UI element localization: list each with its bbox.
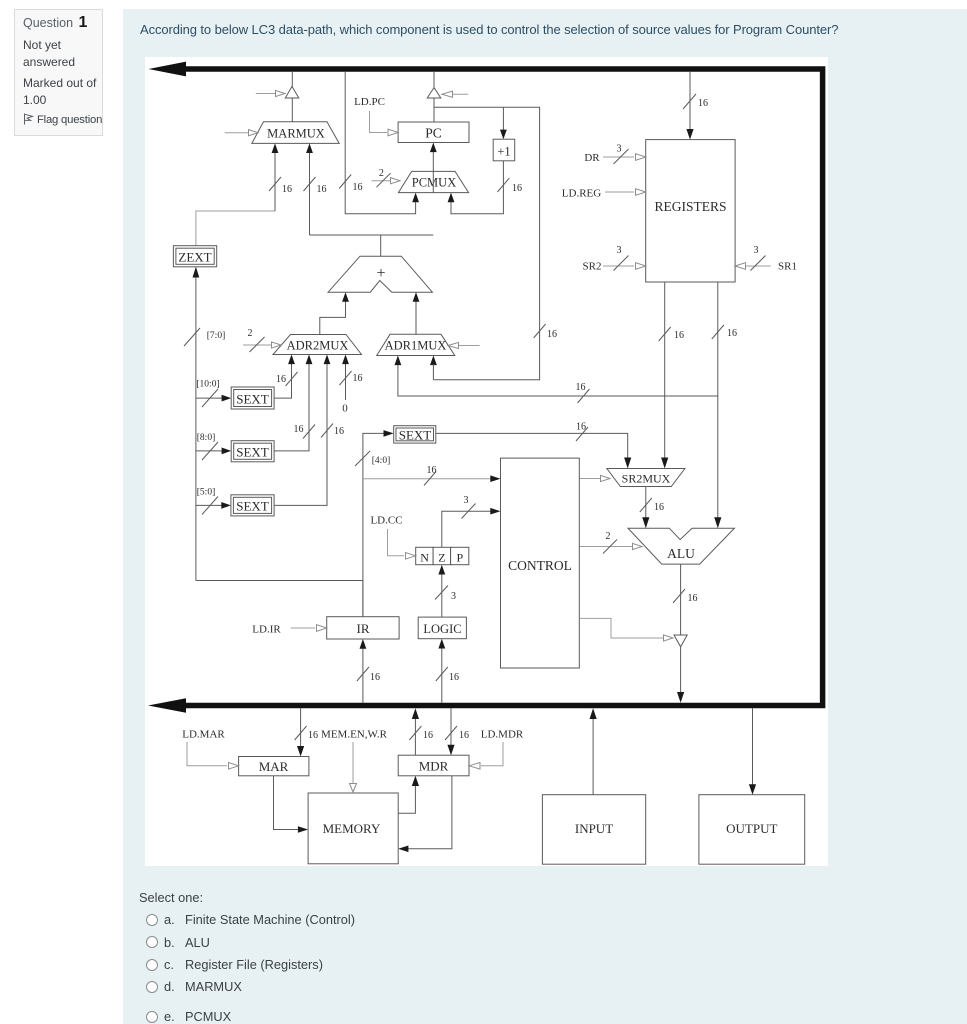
control unit CONTROL <box>501 458 580 668</box>
wire IR output riser (left) <box>195 277 197 581</box>
slash 16 on ALU output <box>673 589 685 603</box>
wire ADR2MUX select stub with slash 2 <box>243 342 281 348</box>
wire INPUT to bus <box>592 719 594 795</box>
slash on SEXT2 input <box>202 442 218 460</box>
wire SEXT4 output to SR2MUX <box>436 433 628 464</box>
svg-text:LD.MDR: LD.MDR <box>481 729 524 741</box>
svg-text:0: 0 <box>342 403 348 415</box>
arrowhead into MAR <box>297 746 304 757</box>
arrowhead into NZP <box>438 565 445 575</box>
wire adder output to MARMUX and PCMUX <box>310 235 434 256</box>
arrowhead ADR2MUX input3 <box>324 355 331 365</box>
bus top-left arrowhead <box>149 62 187 77</box>
wire ADR1MUX right input riser <box>432 364 434 380</box>
slash on SR2 <box>614 256 629 271</box>
register ZEXT (double border) <box>173 246 216 267</box>
wire MDR to bus <box>414 719 416 755</box>
svg-text:16: 16 <box>294 424 304 435</box>
wire LOGIC to NZP <box>441 570 443 617</box>
wire SR1 to ADR1MUX left input <box>398 360 718 397</box>
wire MARMUX right input riser (from adder) <box>309 146 311 235</box>
wire bus to GatePC <box>433 72 435 88</box>
arrowhead into SR2MUX left input <box>624 458 631 469</box>
wire CONTROL to ALUK select <box>579 543 642 549</box>
svg-text:16: 16 <box>423 730 433 741</box>
mux ADR1MUX <box>377 334 455 355</box>
slash 3 on LOGIC output <box>435 586 448 600</box>
slash 16 on bus-LOGIC wire <box>436 667 448 681</box>
svg-text:CONTROL: CONTROL <box>508 558 572 573</box>
svg-text:16: 16 <box>334 426 344 437</box>
wire LD.IR into IR <box>291 625 327 632</box>
slash on SR1 <box>751 256 766 271</box>
slash on ALUK <box>603 540 617 554</box>
wire SEXT3 output to ADR2MUX <box>274 359 327 506</box>
slash 16 on SR2MUX output <box>640 498 652 512</box>
slash 3 on NZP-CONTROL wire <box>462 504 476 519</box>
wire CONTROL to GateALU <box>579 618 673 641</box>
svg-text:LD.CC: LD.CC <box>370 515 402 527</box>
register PC <box>398 122 469 143</box>
arrowhead ADR2MUX input4 <box>342 355 349 365</box>
arrowhead into REGISTERS <box>686 129 693 140</box>
condition code register N <box>416 547 433 564</box>
tri-state buffer GateMARMUX <box>285 86 299 98</box>
slash 16 on SR1 output <box>712 325 724 339</box>
wire IR to CONTROL <box>363 478 491 480</box>
arrowhead into SEXT3 <box>221 502 231 509</box>
arrowhead MDR-MEMORY <box>398 846 408 853</box>
svg-text:[10:0]: [10:0] <box>196 380 219 390</box>
svg-text:2: 2 <box>248 328 253 339</box>
svg-text:SEXT: SEXT <box>236 445 269 460</box>
ALU <box>628 528 734 564</box>
arrowhead into OUTPUT <box>749 784 756 795</box>
wire LD.REG into REGISTERS <box>605 189 646 196</box>
wire ADR1MUX output to adder <box>415 296 417 334</box>
wire GateMARMUX control stub <box>256 90 285 96</box>
svg-text:16: 16 <box>449 672 459 683</box>
svg-text:16: 16 <box>353 182 363 193</box>
wire bus riser to PCMUX left input <box>345 72 415 214</box>
svg-text:LOGIC: LOGIC <box>423 622 461 636</box>
arrowhead PCMUX left input <box>412 193 419 203</box>
mux SR2MUX (inverted trapezoid) <box>607 469 685 487</box>
wire GatePC control stub <box>442 91 468 97</box>
slash [4:0] on IR riser <box>355 451 370 466</box>
wire ALU output to GateALU <box>680 564 682 635</box>
wire LD.MAR into MAR <box>187 742 239 769</box>
svg-text:LD.MAR: LD.MAR <box>182 729 225 741</box>
svg-text:Z: Z <box>438 551 445 565</box>
arrowhead ADR1MUX left input <box>395 356 402 366</box>
svg-text:LD.REG: LD.REG <box>562 188 601 200</box>
svg-text:PCMUX: PCMUX <box>412 176 456 190</box>
slash 16 on SR1-ADR1MUX wire <box>578 389 590 403</box>
mux PCMUX <box>398 171 468 192</box>
wire IR[5:0] branch to SEXT <box>196 504 223 506</box>
slash 16 on bus-REGISTERS wire <box>683 94 696 109</box>
arrowhead ADR1MUX right input <box>430 356 437 366</box>
arrowhead into SR2MUX right input <box>661 458 668 469</box>
svg-text:LD.IR: LD.IR <box>252 624 281 636</box>
svg-text:MAR: MAR <box>259 759 289 774</box>
arrowhead into MDR <box>447 745 454 756</box>
arrowhead into SEXT1 <box>222 395 232 402</box>
wire GateALU to bus <box>680 647 682 693</box>
arrowhead NZP-CONTROL <box>490 508 500 515</box>
svg-text:ALU: ALU <box>667 546 695 561</box>
adder for address generation <box>328 256 432 292</box>
system bus (thick C-shaped loop) <box>170 69 823 706</box>
wire LD.CC to NZP <box>388 529 416 559</box>
input device INPUT <box>542 795 645 865</box>
memory address register MAR <box>239 757 309 776</box>
slash on SEXT1 input <box>202 389 218 407</box>
wire MARMUX left input riser <box>274 146 276 211</box>
wire NZP to CONTROL <box>442 511 491 547</box>
wire IR[10:0] branch to SEXT <box>196 397 223 399</box>
arrowhead ADR2MUX input2 <box>306 355 313 365</box>
arrowhead into PC bottom <box>430 143 437 153</box>
slash on ADR2MUX select <box>250 337 265 352</box>
svg-text:[5:0]: [5:0] <box>197 488 215 498</box>
slash 16 on SEXT4 output <box>576 427 588 441</box>
arrowhead into LOGIC bottom <box>438 639 445 649</box>
memory data register MDR <box>398 755 469 776</box>
svg-text:SR2MUX: SR2MUX <box>622 472 671 486</box>
svg-text:ADR2MUX: ADR2MUX <box>287 339 349 353</box>
slash 16 on MDR-bus wire <box>409 726 421 740</box>
arrowhead into ALU B input <box>714 517 721 528</box>
svg-text:[4:0]: [4:0] <box>372 456 390 466</box>
slash 16 on bus-MAR wire <box>295 726 307 740</box>
wire bus to IR <box>362 645 364 703</box>
wire SR2 output riser <box>664 282 666 464</box>
svg-text:16: 16 <box>576 382 586 393</box>
wire GateMARMUX to MARMUX <box>291 98 293 122</box>
arrowhead into IR bottom <box>360 639 367 649</box>
wire CONTROL to SR2MUX select <box>579 475 610 481</box>
svg-text:MEMORY: MEMORY <box>323 821 381 836</box>
wire SR1 output riser <box>717 282 719 522</box>
slash 16 on SEXT1 output <box>286 372 298 386</box>
wire MARMUX select stub <box>225 130 258 136</box>
arrowhead into SEXT2 <box>222 448 232 455</box>
svg-text:SEXT: SEXT <box>236 392 269 407</box>
arrowhead adder left input <box>342 292 349 302</box>
wire bus to MAR <box>300 708 302 748</box>
wire bus to MDR <box>450 708 452 747</box>
arrowhead ADR2MUX input1 <box>288 355 295 365</box>
arrowhead GateALU onto bus <box>677 692 684 703</box>
svg-text:LD.PC: LD.PC <box>354 96 385 108</box>
wire PCMUX select stub with slash 2 <box>372 178 401 184</box>
output device OUTPUT <box>699 795 805 865</box>
sign-extend SEXT3 (double border) <box>231 495 274 516</box>
wire LD.MDR into MDR <box>469 742 503 769</box>
svg-text:[7:0]: [7:0] <box>207 331 225 341</box>
svg-text:16: 16 <box>512 183 522 194</box>
arrowhead into MARMUX right input <box>306 143 313 153</box>
wire MEMORY to MDR <box>398 781 415 813</box>
svg-text:16: 16 <box>547 329 557 340</box>
svg-text:3: 3 <box>464 495 469 506</box>
slash 16 on MARMUX left input <box>269 177 281 191</box>
svg-text:SR2: SR2 <box>583 261 602 273</box>
svg-text:16: 16 <box>276 374 286 385</box>
svg-text:16: 16 <box>317 184 327 195</box>
svg-text:MARMUX: MARMUX <box>267 127 325 141</box>
wire incrementer output to PCMUX <box>451 161 503 214</box>
svg-text:16: 16 <box>282 184 292 195</box>
svg-text:16: 16 <box>353 373 363 384</box>
svg-text:IR: IR <box>357 621 370 636</box>
svg-text:3: 3 <box>617 144 622 155</box>
wire DR into REGISTERS <box>603 154 646 161</box>
svg-text:DR: DR <box>584 152 600 164</box>
slash 16 on MARMUX right input <box>304 177 316 191</box>
svg-text:16: 16 <box>698 98 708 109</box>
arrowhead into incrementer <box>500 130 507 140</box>
wire IR output down-leg to left riser <box>196 581 363 617</box>
slash 16 on SEXT3 output <box>321 424 333 438</box>
wire ADR1MUX select stub <box>448 342 480 348</box>
svg-text:16: 16 <box>370 672 380 683</box>
slash on DR <box>614 149 629 164</box>
svg-text:2: 2 <box>606 531 611 542</box>
wire MAR to MEMORY <box>274 776 300 830</box>
slash [7:0] on ZEXT input <box>184 328 200 346</box>
arrowhead PCMUX right input <box>448 193 455 203</box>
arrowhead adder right input <box>413 292 420 302</box>
wire IR[8:0] branch to SEXT <box>196 450 223 452</box>
slash 16 on SEXT2 output <box>303 425 315 439</box>
svg-text:3: 3 <box>754 245 759 256</box>
incrementer +1 box <box>493 139 515 161</box>
wire SR1 select into REGISTERS (right) <box>735 263 771 270</box>
wire constant 0 into ADR2MUX input4 <box>345 359 347 401</box>
mux ADR2MUX <box>273 335 362 355</box>
wire IR riser to SEXT[4:0] and CONTROL <box>363 433 384 616</box>
wire LD.PC to PC <box>370 111 399 136</box>
svg-text:ADR1MUX: ADR1MUX <box>385 339 447 353</box>
slash 16 on bus-MDR wire <box>445 726 457 740</box>
svg-text:16: 16 <box>727 328 737 339</box>
arrowhead into MARMUX left input <box>272 143 279 153</box>
svg-text:+: + <box>376 265 385 282</box>
sign-extend SEXT1 (double border) <box>231 387 274 409</box>
svg-text:16: 16 <box>427 465 437 476</box>
arrowhead into CONTROL input <box>490 475 500 482</box>
svg-text:16: 16 <box>308 730 318 741</box>
slash 16 on incrementer output <box>497 178 509 192</box>
wire PC to incrementer <box>502 107 504 131</box>
svg-text:PC: PC <box>425 126 442 141</box>
wire SEXT1 output to ADR2MUX <box>274 359 291 399</box>
wire SR2 select into REGISTERS <box>603 263 646 270</box>
svg-text:MDR: MDR <box>419 759 449 774</box>
sign-extend SEXT2 (double border) <box>231 441 274 462</box>
svg-text:MEM.EN,W.R: MEM.EN,W.R <box>321 729 388 741</box>
svg-text:16: 16 <box>459 730 469 741</box>
wire PCMUX output to PC <box>432 146 434 193</box>
arrowhead into SEXT[4:0] <box>384 430 394 437</box>
svg-text:2: 2 <box>379 168 384 179</box>
arrowhead MEMORY-MDR <box>412 776 419 786</box>
logic block LOGIC <box>418 617 466 639</box>
arrowhead INPUT onto bus <box>590 708 597 719</box>
svg-text:16: 16 <box>654 502 664 513</box>
wire PC output branch to right <box>433 107 539 380</box>
svg-text:16: 16 <box>674 330 684 341</box>
bus bottom-left arrowhead <box>148 698 186 713</box>
slash on SEXT3 input <box>202 497 218 515</box>
slash 16 on zero input <box>340 371 352 385</box>
condition code register Z <box>433 547 451 564</box>
svg-text:3: 3 <box>451 591 456 602</box>
wire SR2MUX output to ALU <box>645 487 647 523</box>
svg-text:P: P <box>456 551 463 565</box>
memory MEMORY <box>308 793 398 864</box>
wire ADR2MUX output to adder <box>320 296 346 335</box>
svg-text:N: N <box>420 551 429 565</box>
wire ZEXT output to MARMUX input <box>196 211 275 246</box>
sign-extend SEXT4 (double border) <box>394 426 436 443</box>
svg-text:16: 16 <box>576 422 586 433</box>
svg-text:3: 3 <box>617 245 622 256</box>
slash 16 on bus riser <box>339 175 351 189</box>
svg-text:INPUT: INPUT <box>575 821 613 836</box>
register file REGISTERS <box>646 140 735 282</box>
wire SEXT2 output to ADR2MUX <box>274 359 309 451</box>
svg-text:+1: +1 <box>497 145 510 159</box>
arrowhead into MEMORY <box>298 826 308 833</box>
tri-state buffer GatePC <box>427 88 441 98</box>
svg-text:OUTPUT: OUTPUT <box>726 821 777 836</box>
wire bus to GateMARMUX <box>291 72 293 87</box>
slash 16 on IR-CONTROL wire <box>424 472 436 486</box>
wire MDR to MEMORY <box>408 776 452 849</box>
arrowhead into ALU A input <box>642 517 649 528</box>
svg-text:SR1: SR1 <box>778 261 797 273</box>
condition code register P <box>451 547 469 564</box>
wire bus to REGISTERS <box>689 72 691 131</box>
slash 16 on bus-IR wire <box>357 667 369 681</box>
mux MARMUX <box>252 122 339 144</box>
wire bus to LOGIC <box>441 644 443 703</box>
svg-text:[8:0]: [8:0] <box>197 433 215 443</box>
svg-text:REGISTERS: REGISTERS <box>654 199 726 214</box>
arrowhead MDR onto bus <box>412 708 419 719</box>
tri-state buffer GateALU <box>674 635 687 647</box>
slash 16 on SR2 output <box>659 327 671 341</box>
arrowhead into ZEXT <box>193 267 200 278</box>
wire bus to OUTPUT <box>752 708 754 786</box>
wire GatePC to PC <box>433 98 435 122</box>
slash on PCMUX select <box>377 173 391 187</box>
svg-text:16: 16 <box>688 593 698 604</box>
svg-text:ZEXT: ZEXT <box>178 250 211 265</box>
svg-text:SEXT: SEXT <box>399 428 432 443</box>
wire MEM.EN into MEMORY <box>350 742 357 792</box>
slash 16 on PC-to-ADR1MUX wire <box>534 324 546 338</box>
instruction register IR <box>327 617 399 639</box>
svg-text:SEXT: SEXT <box>236 499 269 514</box>
